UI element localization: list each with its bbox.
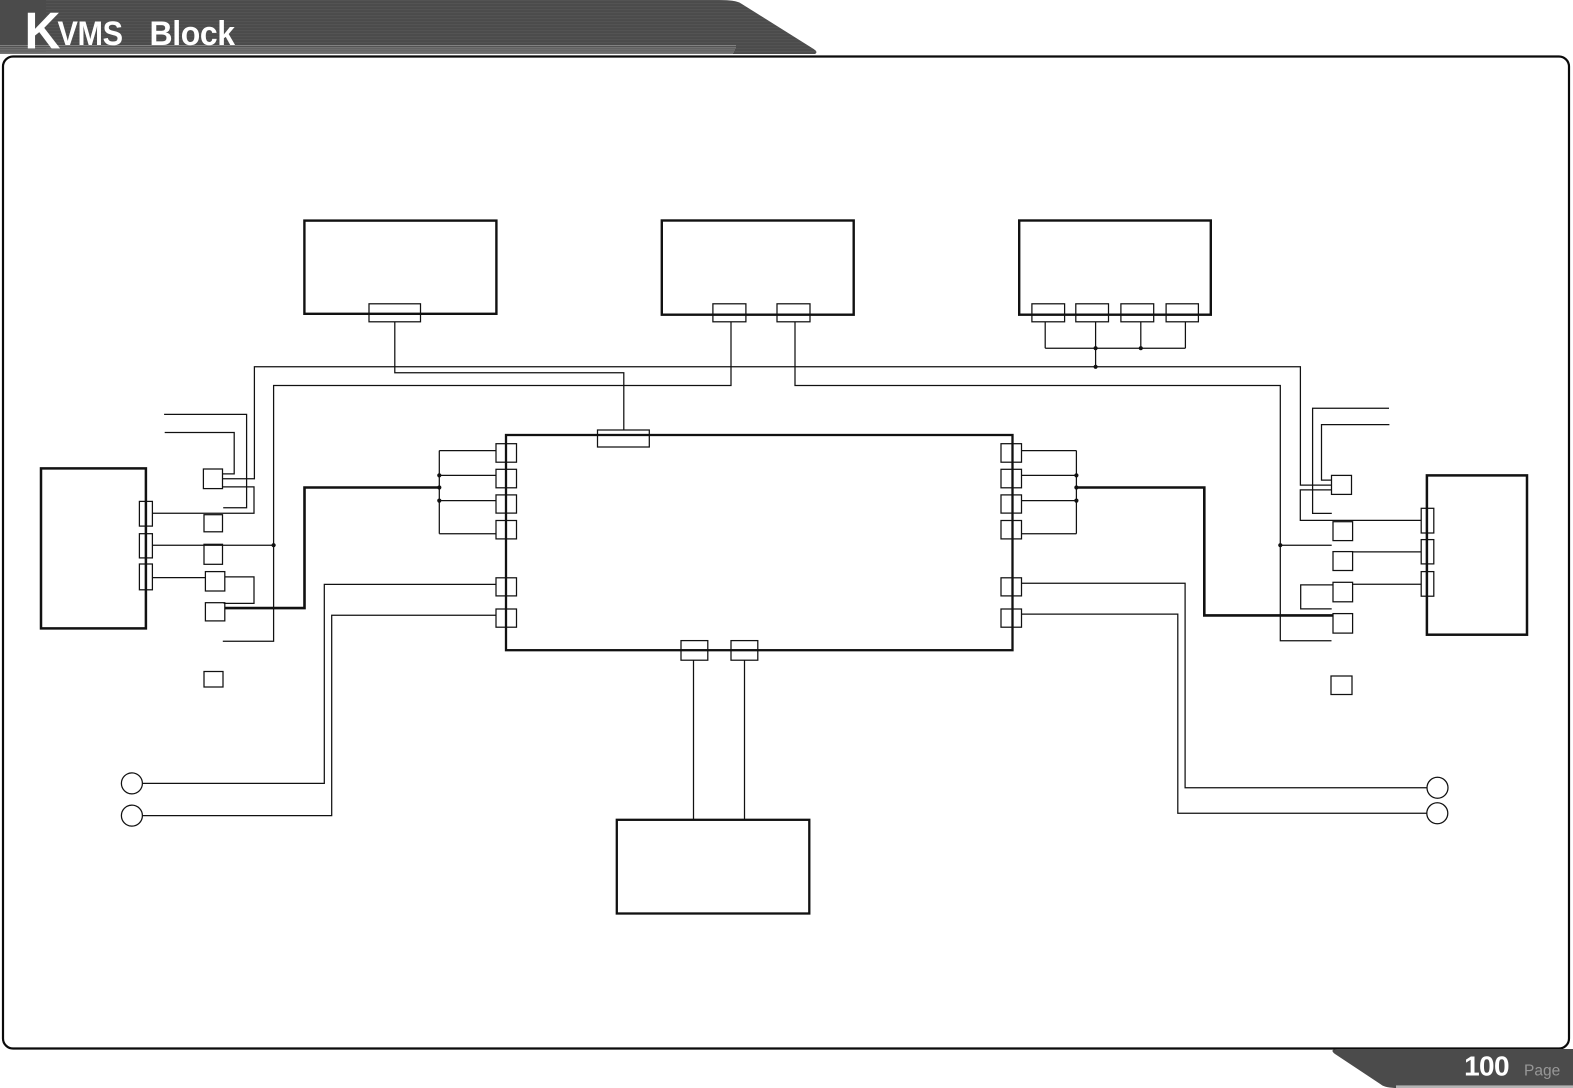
wire J7 down to U3 manifold (1184, 322, 1186, 348)
wire J4 down to U3 manifold (1044, 322, 1046, 348)
junction dot left collector / thick feed (437, 485, 441, 489)
connector J1 on U1 bottom (369, 304, 421, 322)
connector J3 on U2 bottom (777, 304, 810, 322)
wire right collector vertical (1075, 451, 1077, 534)
junction dot left collector / P2 (437, 473, 441, 477)
pin P11 (U4 right pin 5) (1001, 578, 1022, 596)
wire pin P4 to left collector (439, 533, 496, 535)
block U7 (bottom box) (617, 820, 810, 914)
connector J9 on U4 bottom (681, 641, 708, 661)
pin R2 (U6 left pin 2) (1421, 540, 1434, 564)
wire node LA to pin Q1 (152, 487, 254, 513)
pin Q1 (U5 right pin 1) (139, 501, 152, 526)
node RF (right small square F) (1331, 676, 1352, 695)
wire J6 down to U3 manifold (1140, 322, 1142, 348)
svg-text:VMS: VMS (58, 15, 123, 53)
pin R3 (U6 left pin 3) (1421, 572, 1434, 597)
node RB (right small square B) (1333, 522, 1353, 541)
connector J4 on U3 bottom (1032, 304, 1065, 322)
connector J5 on U3 bottom (1076, 304, 1109, 322)
node LE (left small square E) (205, 603, 224, 621)
wire node RC to pin R2 (1353, 551, 1422, 553)
pin P6 (U4 left pin 6) (496, 609, 517, 627)
terminal circle T3 (right upper) (1427, 777, 1448, 798)
svg-text:Page: Page (1524, 1063, 1560, 1080)
junction dot right collector / P9 (1074, 499, 1078, 503)
wire node RD to pin R3 (1353, 583, 1422, 585)
block U6 (right box) (1427, 475, 1527, 634)
wire pin P3 to left collector (439, 500, 496, 502)
node RD (right small square D) (1333, 582, 1353, 602)
pin P2 (U4 left pin 2) (496, 469, 517, 488)
block U3 (top-right box) (1019, 221, 1211, 315)
pin P1 (U4 left pin 1) (496, 444, 517, 463)
junction dot right collector / P8 (1074, 473, 1078, 477)
wire stub from bus2-right toward node RC (1280, 544, 1331, 546)
wire J10 down to bottom box (744, 660, 746, 820)
junction dot left collector / P3 (437, 499, 441, 503)
connector J2 on U2 bottom (713, 304, 746, 322)
wire thick feed right (collector to node RE) (1076, 488, 1333, 616)
pin R1 (U6 left pin 1) (1421, 508, 1434, 533)
wire pin P6 to terminal T2 (142, 615, 496, 815)
wire stub NE upper (right) (1313, 408, 1389, 513)
connector J6 on U3 bottom (1121, 304, 1154, 322)
node LF (left small square F) (204, 672, 223, 688)
wire pin P8 to right collector (1022, 474, 1077, 476)
wire pin Q2 to bus2-left (152, 544, 273, 546)
node RA (right small square A) (1332, 475, 1352, 494)
wire pin P9 to right collector (1022, 500, 1077, 502)
wire stub NW upper (left) (164, 414, 247, 507)
junction dot J6/manifold (1139, 346, 1143, 350)
wire pin P10 to right collector (1022, 533, 1077, 535)
wire stub NW lower into node LA (165, 433, 235, 474)
wire bus1 (long bus from node LA region to node RA region) (223, 367, 1332, 485)
wire pin P12 to terminal T4 (1022, 614, 1427, 813)
wire bus2-right (J3 down, right and down past dot to stub) (795, 322, 1332, 641)
connector J7 on U3 bottom (1166, 304, 1198, 322)
wire hook node RD to stub (1301, 585, 1333, 609)
node RC (right small square C) (1333, 552, 1353, 571)
node LA (left small square A) (203, 469, 222, 489)
wire pin P2 to left collector (439, 474, 496, 476)
wire left collector vertical (438, 451, 440, 534)
wire J5 down to bus1 (1095, 322, 1097, 367)
svg-text:100: 100 (1464, 1051, 1509, 1082)
wire hook node LD to node LE (224, 577, 254, 604)
wire bus2-left (J2 down, left and down past dot to stub) (223, 322, 731, 642)
node LB (left small square B) (204, 515, 223, 532)
connector J10 on U4 bottom (731, 641, 758, 661)
pin P9 (U4 right pin 3) (1001, 495, 1022, 513)
connector J8 on U4 top (598, 430, 650, 447)
pin P10 (U4 right pin 4) (1001, 521, 1022, 539)
terminal circle T2 (left lower) (121, 805, 142, 826)
pin P3 (U4 left pin 3) (496, 495, 517, 513)
pin P5 (U4 left pin 5) (496, 578, 517, 596)
block U5 (left box) (41, 468, 146, 628)
wire thick feed left (collector to node LE) (225, 488, 439, 609)
wire pin P7 to right collector (1022, 450, 1077, 452)
node LC (left small square C) (204, 544, 223, 564)
node LD (left small square D) (205, 572, 224, 591)
junction dot right collector / thick feed (1074, 485, 1078, 489)
junction dot at bus2-left / Q2 wire (272, 543, 276, 547)
svg-text:Block: Block (150, 14, 236, 52)
pin Q2 (U5 right pin 2) (139, 534, 152, 558)
pin P12 (U4 right pin 6) (1001, 609, 1022, 627)
junction dot J5/bus1 (1094, 365, 1098, 369)
node RE (right small square E) (1333, 614, 1353, 634)
pin P8 (U4 right pin 2) (1001, 469, 1022, 488)
block U4 (central main box) (506, 435, 1013, 650)
terminal circle T4 (right lower) (1427, 803, 1448, 824)
wire J9 down to bottom box (693, 660, 695, 820)
wire pin P1 to left collector (439, 450, 496, 452)
block U1 (top-left box) (304, 221, 496, 314)
junction dot at bus2-right / stub (1278, 543, 1282, 547)
svg-text:K: K (25, 2, 61, 60)
pin P4 (U4 left pin 4) (496, 521, 517, 539)
pin Q3 (U5 right pin 3) (139, 564, 152, 590)
wire node RA to pin R1 (1300, 490, 1421, 521)
wire pin Q3 to node LD (152, 577, 205, 579)
terminal circle T1 (left upper) (121, 773, 142, 794)
wire pin P11 to terminal T3 (1022, 583, 1428, 788)
wire U3 manifold horizontal (1045, 347, 1185, 349)
wire pin P5 to terminal T1 (142, 584, 496, 783)
pin P7 (U4 right pin 1) (1001, 444, 1022, 463)
wire J1 to J8 (top-left box to central box) (395, 322, 624, 430)
block U2 (top-middle box) (662, 221, 854, 315)
wire stub NE lower into node RA (1322, 425, 1390, 481)
junction dot J5/manifold (1094, 346, 1098, 350)
